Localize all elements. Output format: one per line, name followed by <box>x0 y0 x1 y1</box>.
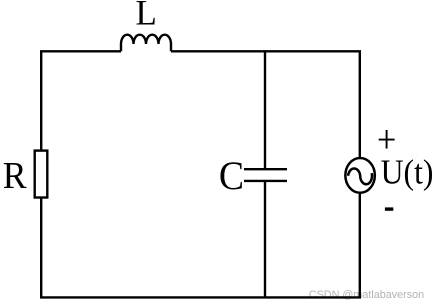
capacitor C bottom plate <box>244 180 287 182</box>
svg-text:L: L <box>136 0 157 33</box>
svg-text:R: R <box>3 154 27 196</box>
AC source U1 circle <box>345 158 375 193</box>
inductor L <box>121 35 171 52</box>
wire right top from source to inductor right <box>171 51 360 158</box>
svg-text:U(t): U(t) <box>381 153 434 192</box>
wire middle branch above capacitor <box>264 50 266 169</box>
wire left below resistor + bottom + right up to source <box>41 194 360 298</box>
wire middle branch below capacitor <box>264 181 266 298</box>
minus sign <box>385 207 393 210</box>
resistor R <box>35 151 48 198</box>
svg-text:C: C <box>219 154 244 198</box>
capacitor C top plate <box>244 168 287 170</box>
AC source sine wave <box>348 168 372 184</box>
plus sign <box>379 130 395 149</box>
wire top-left + left side down to resistor <box>41 51 121 150</box>
svg-text:CSDN @matlabaverson: CSDN @matlabaverson <box>309 289 424 301</box>
